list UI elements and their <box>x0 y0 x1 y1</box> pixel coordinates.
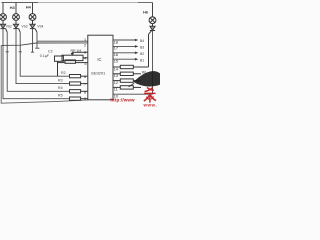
resistor R8 <box>113 79 141 82</box>
wire lamp3 drop <box>32 3 34 14</box>
wire pin1 to VS4 gate <box>35 32 88 48</box>
resistor R1 <box>58 60 88 63</box>
wire VS5 cathode down <box>152 31 154 95</box>
node B3 <box>135 45 139 48</box>
potentiometer RP <box>62 52 88 60</box>
node B1 <box>135 58 139 61</box>
lamp H3 <box>13 14 20 21</box>
svg-text:6: 6 <box>84 75 86 79</box>
svg-text:B4: B4 <box>140 39 144 43</box>
resistor R5 <box>70 97 88 100</box>
thyristor VS3 <box>13 20 20 32</box>
lamp H6 <box>149 17 156 24</box>
svg-text:R5: R5 <box>58 94 63 98</box>
lamp H4 <box>29 14 36 21</box>
svg-text:2: 2 <box>84 43 86 47</box>
svg-text:5: 5 <box>84 62 86 66</box>
svg-text:14: 14 <box>114 67 118 71</box>
svg-text:0.1µF: 0.1µF <box>40 54 50 58</box>
watermark swoosh tail <box>129 83 135 87</box>
svg-text:17: 17 <box>114 47 118 51</box>
svg-text:C2: C2 <box>48 49 53 53</box>
resistor R9 <box>113 86 141 89</box>
svg-text:H3: H3 <box>10 5 16 10</box>
svg-text:18: 18 <box>114 40 118 44</box>
wire lamp H6 drop <box>152 3 154 17</box>
thyristor VS5 <box>149 24 156 35</box>
wire left return to bottom bus <box>1 45 88 103</box>
svg-text:H6: H6 <box>143 9 149 14</box>
node B2 <box>135 52 139 55</box>
svg-text:1: 1 <box>84 38 86 42</box>
svg-text:3: 3 <box>84 50 86 54</box>
thyristor VS2 <box>0 20 7 32</box>
wire VS3 gate to R2 row <box>20 32 69 76</box>
wire VS4 cathode stub <box>31 29 34 53</box>
lamp H2 <box>0 14 6 21</box>
resistor R6 <box>113 65 149 68</box>
capacitor C2 <box>55 56 64 76</box>
wire top bus <box>2 2 39 4</box>
svg-text:VS3: VS3 <box>22 25 28 29</box>
svg-text:http://www: http://www <box>110 98 135 103</box>
resistor R3 <box>70 82 88 85</box>
svg-text:R2: R2 <box>61 71 66 75</box>
watermark swoosh <box>134 71 160 86</box>
svg-text:VS4: VS4 <box>37 25 43 29</box>
resistor R7 <box>113 72 141 75</box>
svg-text:SE9201: SE9201 <box>91 71 106 76</box>
junction tick B <box>19 51 22 53</box>
svg-text:VS2: VS2 <box>6 25 12 29</box>
svg-text:15: 15 <box>114 60 118 64</box>
svg-text:11: 11 <box>114 88 118 92</box>
wire pin17 <box>113 45 135 47</box>
resistor R4 <box>70 90 88 93</box>
node B4 <box>135 39 139 42</box>
wire pin15 <box>113 58 135 60</box>
svg-text:R4: R4 <box>58 86 63 90</box>
svg-text:R3: R3 <box>58 78 63 82</box>
svg-text:8: 8 <box>84 90 86 94</box>
wire VS2 cathode to R5 row <box>3 29 70 99</box>
wire VS2 gate to R4 row <box>7 32 69 91</box>
svg-text:4: 4 <box>84 57 86 61</box>
svg-text:B1: B1 <box>140 58 144 62</box>
wire pin16 <box>113 52 135 54</box>
wire pin18 <box>113 39 135 41</box>
wire VS5 gate <box>148 34 150 67</box>
resistor R2 <box>70 75 88 78</box>
IC U1 SE9201 <box>88 35 113 100</box>
wire lamp2 drop <box>15 3 17 14</box>
svg-text:www.: www. <box>143 102 158 107</box>
svg-text:IC: IC <box>97 57 101 62</box>
svg-text:7: 7 <box>84 83 86 87</box>
junction tick A <box>6 51 9 53</box>
watermark red glyph <box>144 87 156 102</box>
svg-text:9: 9 <box>84 97 86 101</box>
wire pin2 bus <box>1 43 88 46</box>
svg-text:RP 1M: RP 1M <box>71 49 82 53</box>
svg-text:B3: B3 <box>140 46 144 50</box>
thyristor VS4 <box>30 20 37 32</box>
svg-text:B2: B2 <box>140 52 144 56</box>
svg-text:16: 16 <box>114 53 118 57</box>
wire VS3 cathode to R3 row <box>16 29 70 84</box>
svg-text:H4: H4 <box>26 4 32 9</box>
wire pin10 <box>113 93 153 95</box>
wire lamp1 drop <box>2 3 4 14</box>
svg-text:12: 12 <box>114 81 118 85</box>
svg-text:13: 13 <box>114 74 118 78</box>
